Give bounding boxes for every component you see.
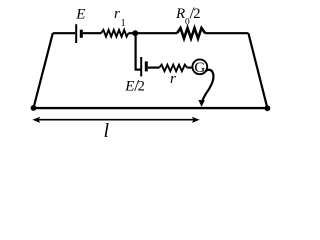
jockey contact arrowhead	[198, 100, 204, 107]
wire top-left (corner to battery E)	[53, 32, 75, 34]
resistor R0/2 zigzag	[177, 28, 205, 39]
wire battery E to resistor r1	[83, 32, 101, 34]
svg-text:R: R	[175, 6, 185, 22]
battery E long plate (positive)	[75, 24, 77, 43]
svg-text:1: 1	[121, 18, 126, 29]
left diagonal wire	[34, 33, 53, 108]
svg-text:2: 2	[193, 6, 200, 22]
svg-text:r: r	[170, 71, 176, 87]
svg-text:2: 2	[138, 79, 145, 95]
resistor r zigzag	[159, 65, 187, 72]
battery E short plate (negative)	[80, 30, 83, 38]
battery E/2 short plate	[145, 61, 148, 71]
right diagonal wire	[248, 33, 267, 108]
wire r1 to junction	[128, 32, 135, 34]
terminal dot right	[265, 105, 271, 111]
wire junction to resistor R0/2	[135, 32, 177, 34]
terminal dot left	[31, 105, 37, 111]
galvanometer G circle	[192, 59, 207, 74]
wire battery E/2 to resistor r	[148, 66, 159, 68]
wire R0/2 to top-right corner	[205, 32, 248, 34]
length arrow line	[36, 119, 197, 121]
jockey wire curve from galvanometer	[202, 70, 213, 102]
svg-text:E: E	[124, 79, 134, 95]
wire resistor r to galvanometer	[187, 66, 192, 68]
wire junction down to branch	[135, 33, 137, 69]
bottom potentiometer wire	[34, 107, 268, 109]
svg-text:r: r	[114, 6, 120, 22]
svg-text:G: G	[194, 60, 205, 76]
svg-text:E: E	[75, 6, 85, 22]
wire stub to battery E/2	[135, 68, 141, 70]
resistor r1 zigzag	[101, 30, 128, 37]
length arrowhead right	[192, 117, 200, 123]
junction node dot	[132, 30, 138, 36]
battery E/2 long plate	[140, 57, 142, 76]
svg-text:l: l	[104, 120, 110, 142]
length arrowhead left	[32, 117, 40, 123]
